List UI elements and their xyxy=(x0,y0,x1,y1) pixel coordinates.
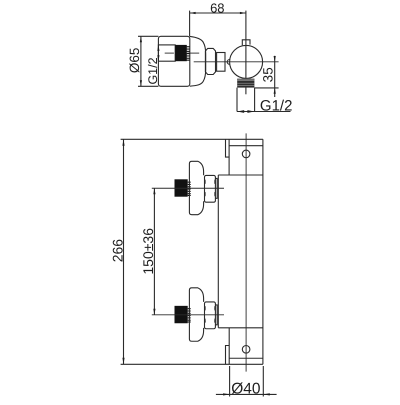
handle body top view (rounded rect) xyxy=(158,36,189,86)
bottom handle centerline + 150 extension xyxy=(152,314,224,316)
outlet pipe right wall xyxy=(254,88,256,112)
bottom handle collar xyxy=(215,305,217,325)
thread stub white rect xyxy=(158,45,175,61)
266 bottom arrow xyxy=(122,358,124,365)
svg-text:G1/2: G1/2 xyxy=(260,97,293,114)
svg-text:Ø40: Ø40 xyxy=(231,381,261,398)
top block inner line xyxy=(229,145,263,147)
wall bracket tab top view xyxy=(242,40,250,45)
G1/2 stub bottom arrow xyxy=(157,55,159,61)
thread stub serration teeth xyxy=(187,46,190,60)
top handle nut xyxy=(205,175,216,202)
svg-text:Ø65: Ø65 xyxy=(127,48,142,74)
35 top arrow (above, pointing down) xyxy=(274,56,276,62)
Ø65 bottom extension line xyxy=(138,85,158,87)
bottom handle serration teeth xyxy=(188,308,191,322)
connector block top view xyxy=(217,53,225,72)
outlet pipe bottom edge / G1/2 underline xyxy=(237,111,291,113)
bottom handle black tip xyxy=(175,306,188,323)
bar right edge xyxy=(262,139,264,364)
Ø65 top arrow xyxy=(140,36,142,42)
150±36 bottom arrow xyxy=(153,309,155,315)
top mounting hole xyxy=(242,150,250,158)
bottom block top edge xyxy=(218,327,263,329)
35 bottom arrow (below, pointing up) xyxy=(274,88,276,94)
bar vertical centerline xyxy=(245,133,247,371)
35 dimension bottom extension line xyxy=(255,87,279,89)
svg-text:150±36: 150±36 xyxy=(140,228,156,275)
dimension 68 right extension / centerline through tab and circle xyxy=(245,11,247,95)
dimension 68 line xyxy=(190,12,246,14)
Ø40 left extension line xyxy=(229,366,231,397)
266 bottom extension + bar bottom edge xyxy=(121,363,263,365)
top handle nut scallops xyxy=(205,180,215,197)
svg-text:35: 35 xyxy=(261,67,276,82)
notch half-circle on circle left xyxy=(227,60,229,65)
G1/2 stub top arrow xyxy=(157,45,159,51)
top bracket tab xyxy=(226,139,230,157)
bottom handle knob outline xyxy=(189,288,203,341)
bottom handle nut xyxy=(205,302,216,329)
dimension 68 right arrow xyxy=(240,12,246,14)
svg-text:G1/2: G1/2 xyxy=(146,57,160,84)
top block left edge xyxy=(228,139,230,175)
dimension 68 left extension line xyxy=(189,11,191,37)
dimension 68 left arrow xyxy=(190,12,196,14)
column circle top view xyxy=(230,45,263,78)
bottom handle nut scallops xyxy=(205,306,215,323)
column left edge xyxy=(217,175,219,328)
bottom handle group (translated copy) xyxy=(175,288,218,341)
Ø40 right extension line xyxy=(262,366,264,397)
266 top extension + bar top edge xyxy=(121,138,263,140)
outlet pipe left wall xyxy=(236,88,238,112)
Ø40 left arrow (outside pointing right) xyxy=(223,393,230,395)
top handle serration teeth xyxy=(188,182,191,196)
Ø65 bottom arrow xyxy=(140,80,142,86)
top handle centerline + 150 extension xyxy=(152,187,224,189)
thread stub centerline dash right xyxy=(187,52,199,54)
svg-text:68: 68 xyxy=(210,0,224,15)
handle dome cap top view xyxy=(190,36,206,86)
Ø65 top extension line xyxy=(138,35,158,37)
266 dimension line xyxy=(123,139,125,364)
150±36 top arrow xyxy=(153,188,155,194)
nut top view (chamfered) xyxy=(205,48,215,74)
outlet thread bands xyxy=(237,79,254,88)
main horizontal centerline top view xyxy=(194,61,279,63)
266 top arrow xyxy=(122,139,124,146)
bottom block left edge xyxy=(228,328,230,365)
G1/2 pipe left arrow xyxy=(237,110,244,113)
Ø40 right arrow (outside pointing left) xyxy=(263,393,270,395)
top handle group xyxy=(175,161,218,214)
top handle collar xyxy=(215,178,217,198)
thread stub centerline dash left xyxy=(165,52,174,54)
svg-text:266: 266 xyxy=(110,239,126,263)
bottom mounting hole xyxy=(242,346,250,354)
Ø40 dimension line xyxy=(216,393,277,395)
top block bottom edge xyxy=(218,174,263,176)
Ø65 dimension line xyxy=(140,36,142,86)
thread stub black block xyxy=(175,45,187,61)
top handle black tip xyxy=(175,179,188,196)
G1/2 pipe right arrow xyxy=(247,110,254,113)
top handle knob outline xyxy=(189,161,203,214)
35 dimension line xyxy=(274,56,276,97)
bottom bracket tab xyxy=(226,346,230,365)
bottom block inner line xyxy=(229,357,263,359)
150±36 dimension line xyxy=(153,188,155,315)
